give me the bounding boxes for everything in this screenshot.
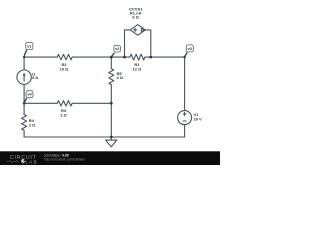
svg-text:LAB: LAB xyxy=(25,159,37,165)
svg-text:1 Ω: 1 Ω xyxy=(29,122,36,127)
svg-text:8 A: 8 A xyxy=(32,75,38,80)
svg-text:v3: v3 xyxy=(188,47,192,51)
svg-text:v2: v2 xyxy=(115,47,119,51)
svg-text:10 Ω: 10 Ω xyxy=(60,66,70,71)
svg-text:http://circuitlab.com/c6rhkur: http://circuitlab.com/c6rhkur xyxy=(44,158,86,162)
svg-text:4 Ω: 4 Ω xyxy=(117,75,124,80)
svg-text:2 Ω: 2 Ω xyxy=(60,113,67,118)
svg-text:6 Ω: 6 Ω xyxy=(132,14,139,19)
svg-text:12 Ω: 12 Ω xyxy=(133,67,143,72)
svg-text:20 V: 20 V xyxy=(194,116,203,121)
svg-text:v1: v1 xyxy=(27,45,31,49)
